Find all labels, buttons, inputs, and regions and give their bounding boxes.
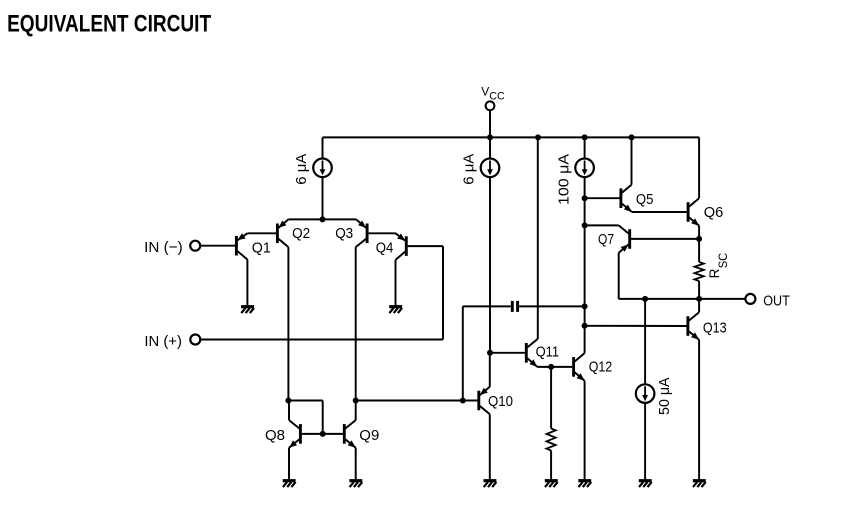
wire down to resistor [550,367,552,429]
wire Q13 base line [585,325,687,327]
svg-text:Q2: Q2 [292,226,310,242]
junction Q11 emitter/resistor [548,364,554,370]
wire Q10 collector to ground [489,414,491,479]
ground (Q10 collector) [484,479,497,482]
ground (Q13 emitter) [693,479,706,482]
wire Q6 emitter down [698,226,700,239]
ground (Q9 emitter) [349,479,362,482]
current source 6uA (middle) [481,159,500,178]
wire 6uA to tail node [322,177,324,219]
ground (resistor) [545,479,558,482]
svg-text:EQUIVALENT CIRCUIT: EQUIVALENT CIRCUIT [7,11,211,38]
svg-text:IN (−): IN (−) [144,239,183,256]
transistor Q10 [479,387,490,415]
wire rail to mid 6uA [489,137,491,158]
wire down to 50uA source [644,299,646,384]
svg-text:Q6: Q6 [704,205,724,221]
svg-text:IN (+): IN (+) [144,333,182,350]
wire IN(+) line [201,339,444,341]
wire Q12 collector up [584,326,586,353]
wire Q9 emitter to ground [355,448,357,480]
junction rail/100uA [582,134,588,140]
wire Q7 emitter down [618,253,620,299]
wire rail end down to Q6 collector [698,137,700,198]
svg-text:6 μA: 6 μA [294,153,310,184]
wire Q7 base to Q6 emitter node [631,238,699,240]
capacitor C (compensation) [512,301,517,312]
junction tail node [320,216,326,222]
wire emitter tail rail [288,218,356,220]
transistor Q4 [396,233,407,260]
svg-text:R: R [707,268,722,278]
wire Q8 emitter to ground [288,448,290,480]
wire Q8 diode link top [288,400,322,402]
terminal VCC [486,101,495,110]
wire Q1 collector to ground [246,260,248,306]
junction rail/Q5 collector line [629,134,635,140]
wire Q5 emitter to Q6 base [632,211,687,213]
transistor Q6 [688,198,699,226]
wire rail down to Q11 collector [537,137,539,339]
wire IN(+) riser to Q4 base [442,246,444,339]
transistor Q2 [277,219,288,247]
svg-text:Q4: Q4 [376,240,394,256]
resistor RSC [695,262,704,281]
terminal IN(-) [190,241,200,251]
wire to Q5 base [585,197,620,199]
wire mid 6uA down to Q10/Q11 node [489,177,491,353]
svg-text:Q12: Q12 [589,359,613,375]
junction Q8/Q9 base rail [320,431,326,437]
junction RSC/output/Q13 collector [696,296,702,302]
wire 50uA to ground [644,403,646,479]
wire Q7 collector to column [585,224,619,226]
junction Q3 coll/Q9/Q10 [353,398,359,404]
transistor Q1 [236,233,247,259]
wire top supply rail [323,136,700,138]
label RSC [707,252,730,278]
wire Q8 collector up [288,401,290,421]
wire Q9 collector up [355,401,357,421]
svg-text:Q7: Q7 [598,232,614,248]
resistor (Q12 base bleed) [547,429,556,451]
svg-text:Q5: Q5 [636,192,654,208]
wire Q13 collector up [698,299,700,312]
svg-text:Q3: Q3 [335,226,353,242]
junction rail/Q11 collector line [535,134,541,140]
wire to Q11 base [490,352,525,354]
svg-text:SC: SC [716,252,730,268]
wire rail to 6uA source [322,137,324,158]
svg-text:Q1: Q1 [252,240,271,256]
wire Q13 emitter to ground [698,340,700,480]
junction column/Q5 base [582,195,588,201]
svg-text:6 μA: 6 μA [462,153,478,184]
wire RSC top [698,239,700,262]
wire VCC stem [489,110,491,137]
transistor Q11 [526,339,537,367]
wire RSC bottom [698,281,700,299]
svg-text:OUT: OUT [763,293,790,310]
junction column/Q13 base [582,323,588,329]
ground (Q4 collector) [389,305,402,308]
wire Q2 collector down to Q8 [287,247,289,400]
transistor Q9 [344,420,355,448]
transistor Q12 [574,353,585,381]
wire IN(-) to Q1 base [200,245,235,247]
junction cap/Q10 base [460,398,466,404]
terminal IN(+) [190,335,200,345]
ground (Q1 collector) [241,305,254,308]
svg-text:V: V [481,85,489,99]
wire resistor to ground [550,451,552,480]
svg-text:Q8: Q8 [265,428,285,444]
wire Q8-Q9 base rail [302,433,343,435]
current source 100uA [575,159,594,178]
ground (50uA) [639,479,652,482]
wire Q3 base to Q4 emitter [369,232,396,234]
svg-text:50 μA: 50 μA [657,377,673,415]
transistor Q5 [621,185,632,212]
svg-text:Q11: Q11 [536,345,560,361]
junction Q6 emitter/RSC/Q7 base [696,236,702,242]
svg-text:100 μA: 100 μA [557,154,573,205]
junction 6uA/Q10 emitter/Q11 base [487,350,493,356]
current source 6uA (input stage tail) [313,159,332,178]
wire Q11 emitter to Q12 base [537,366,572,368]
junction cap/main column [582,303,588,309]
junction column/Q7 collector [582,222,588,228]
wire Q8 diode link down [322,401,324,434]
wire rail to 100uA [584,137,586,158]
wire cap left plate down to Q10 base [462,306,464,400]
svg-text:CC: CC [489,90,505,102]
junction output/50uA [642,296,648,302]
wire Q10 emitter up [489,353,491,387]
svg-text:Q10: Q10 [488,394,513,410]
junction Q2 coll/Q8 [285,398,291,404]
wire mirror output to Q10 base [356,400,478,402]
wire Q3 collector down to Q9 [355,247,357,400]
transistor Q3 [356,219,367,247]
transistor Q13 [688,312,699,340]
ground (Q12 emitter) [578,479,591,482]
wire Q4 base [408,245,443,247]
wire cap right plate to Q12 collector node [519,305,585,307]
svg-text:Q13: Q13 [703,321,727,337]
wire Q12 emitter to ground [584,381,586,480]
wire to cap left plate [463,305,511,307]
current source 50uA [636,384,655,403]
junction rail/VCC [487,134,493,140]
wire 100uA down the main column [584,177,586,326]
wire Q4 collector to ground [395,260,397,305]
svg-text:Q9: Q9 [359,428,379,444]
ground (Q8 emitter) [283,479,296,482]
transistor Q7 [619,225,630,252]
wire rail down to Q5 collector [631,137,633,184]
wire Q1 emitter to Q2 base [247,232,276,234]
wire output node line [619,298,746,300]
transistor Q8 [289,420,300,448]
terminal OUT [745,294,755,304]
